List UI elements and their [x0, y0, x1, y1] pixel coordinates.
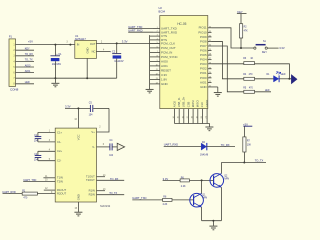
wire v2 PIO7 to LED2 row [212, 46, 244, 92]
svg-text:3.3V: 3.3V [161, 73, 167, 77]
left pin names [161, 27, 179, 86]
resistor R5 470 [244, 90, 255, 93]
svg-text:PIO0: PIO0 [200, 76, 207, 80]
wire bottom bus [175, 124, 210, 127]
wire UART_TXD [128, 28, 153, 30]
node junction GND rail [86, 77, 88, 79]
svg-text:2.2K: 2.2K [181, 186, 186, 188]
svg-text:AIO1: AIO1 [200, 80, 207, 84]
svg-text:PIO5: PIO5 [200, 53, 207, 57]
svg-text:PCM_SYNC: PCM_SYNC [161, 55, 179, 59]
wire corner to V+ pin 2 [97, 108, 110, 132]
svg-text:PIO6: PIO6 [200, 49, 207, 53]
svg-text:IN: IN [77, 43, 80, 47]
node junction C1 top [54, 44, 56, 46]
ground right of U2 [214, 92, 222, 94]
resistor R7 10K [243, 137, 246, 152]
wire Q2 collector up [220, 163, 222, 174]
svg-text:OUT: OUT [90, 42, 96, 46]
node junction [288, 78, 290, 80]
svg-text:LED: LED [265, 90, 270, 92]
pin names inside U3 [57, 130, 66, 195]
ground below rail [54, 78, 56, 83]
wire T2IN UART_TXD [23, 180, 55, 182]
regulator U1 AMS1117 [75, 40, 97, 58]
wire to D2 [164, 146, 202, 148]
svg-text:PIO3: PIO3 [200, 62, 207, 66]
svg-text:C2+: C2+ [57, 149, 62, 153]
svg-text:R1OUT: R1OUT [57, 188, 66, 192]
T1OUT stub pin 14 [97, 176, 106, 178]
svg-text:UART_TXD: UART_TXD [128, 25, 142, 29]
svg-text:C1+: C1+ [57, 130, 62, 134]
T1IN stub pin 11 [43, 177, 55, 179]
svg-text:PIO2: PIO2 [200, 67, 207, 71]
svg-text:HC-05: HC-05 [177, 22, 186, 26]
svg-text:KEY: KEY [25, 48, 30, 51]
svg-text:TO_TX: TO_TX [109, 192, 117, 195]
wire Q2 emitter down [220, 187, 222, 220]
node junction Q1 collector [201, 179, 203, 181]
ground below U2 bottom pins [205, 126, 213, 128]
R1OUT stub pin 12 [44, 189, 55, 191]
svg-text:USB_D+: USB_D+ [182, 96, 186, 107]
svg-text:GND: GND [161, 82, 169, 86]
svg-text:BC04: BC04 [159, 10, 166, 14]
svg-text:CSB: CSB [186, 101, 190, 107]
node junction KEY [240, 47, 242, 49]
connector P1 CON8 [9, 39, 16, 87]
svg-text:T2OUT: T2OUT [86, 178, 95, 182]
svg-text:MISO: MISO [196, 100, 200, 107]
wire Q1 emitter down [201, 207, 203, 221]
wire R2 to KEY row [240, 38, 242, 48]
wire pin4 [16, 60, 35, 62]
svg-text:MOSI: MOSI [191, 100, 195, 107]
wire TO_TX row [221, 162, 266, 164]
svg-text:C2-: C2- [57, 159, 61, 163]
right pin numbers [209, 26, 212, 87]
wire pin3 [16, 55, 35, 57]
wire pin5 [16, 66, 35, 68]
capacitor C1 10u/16V [54, 45, 56, 56]
svg-text:R1IN: R1IN [89, 189, 95, 193]
svg-text:AMS1117: AMS1117 [75, 37, 87, 41]
ground below U3 [74, 211, 82, 213]
port arrow hollow [117, 143, 124, 150]
wire U1 GND to rail [86, 58, 88, 78]
IC U3 MAX232 [55, 128, 96, 202]
svg-text:TO_RX: TO_RX [25, 53, 34, 56]
transistor Q1 NPN [190, 193, 204, 207]
svg-text:LED: LED [281, 74, 286, 76]
svg-text:TO_RX: TO_RX [221, 143, 230, 147]
LED D1 [274, 76, 279, 82]
wire Q1 collector vertical [201, 180, 203, 193]
pin4 NC stub [96, 51, 110, 53]
svg-text:+ C2: + C2 [110, 51, 116, 54]
svg-text:VCC: VCC [77, 134, 81, 140]
wire to LED label [255, 91, 272, 93]
svg-text:TO_RX: TO_RX [110, 178, 119, 181]
wire V- pin 6 [97, 146, 110, 148]
svg-text:RESET: RESET [161, 69, 171, 73]
svg-text:UART_TXD: UART_TXD [23, 179, 36, 182]
wire VCC top [65, 107, 90, 109]
left pin numbers [156, 27, 159, 84]
wire R3 to LED1 row [255, 64, 290, 79]
resistor R4 470 [244, 77, 255, 80]
resistor R1 470 [22, 192, 37, 195]
svg-text:PCM_OUT: PCM_OUT [161, 46, 176, 50]
bottom rotated pin names [172, 96, 209, 107]
wire pin8 [16, 83, 35, 85]
svg-text:47K: 47K [244, 31, 249, 33]
svg-text:TO_TX: TO_TX [25, 59, 33, 62]
svg-text:GND: GND [85, 47, 89, 53]
resistor R8 2.2K [163, 198, 172, 201]
svg-text:GND: GND [200, 85, 206, 89]
wire R2IN TO_TX [97, 194, 125, 196]
svg-text:PIO10: PIO10 [198, 30, 207, 34]
svg-text:C1-: C1- [57, 140, 61, 144]
svg-text:AIO0: AIO0 [161, 60, 168, 64]
right pin names [198, 26, 207, 89]
svg-text:1N4148: 1N4148 [200, 155, 209, 157]
svg-text:PIO8: PIO8 [200, 39, 207, 43]
bottom pin numbers [173, 115, 208, 118]
wire PIO11 KEY route [212, 28, 254, 48]
wire pin2 [16, 49, 35, 51]
wire OUT to 3.3V to U2 [96, 42, 159, 44]
wire to TO_RX [206, 146, 235, 148]
svg-text:10u/16V: 10u/16V [114, 60, 124, 63]
wire KEY label to R2 [240, 14, 242, 24]
svg-text:3.3V: 3.3V [122, 39, 128, 43]
svg-text:PIO7: PIO7 [200, 44, 207, 48]
svg-text:NPN: NPN [202, 198, 207, 200]
node junction C2 [116, 42, 118, 44]
wire R2OUT UART_RXD [3, 193, 23, 195]
wire left ground bus [149, 35, 151, 89]
ground below rail [212, 221, 214, 226]
node junction [243, 162, 245, 164]
svg-text:CLK: CLK [200, 102, 204, 107]
wire v1 PIO8 to LED1 row [212, 41, 244, 78]
svg-text:TO_TX: TO_TX [255, 159, 264, 163]
svg-text:V-: V- [92, 145, 95, 149]
svg-text:CON8: CON8 [10, 88, 19, 92]
capacitor C2 104 [37, 151, 39, 155]
svg-text:1.8V: 1.8V [161, 78, 167, 82]
svg-text:NPN: NPN [224, 179, 229, 181]
wire emitter rail [202, 220, 222, 222]
ground below bus [146, 88, 154, 90]
svg-text:KEY: KEY [262, 51, 267, 54]
svg-text:AIO2: AIO2 [172, 101, 176, 108]
node junction C1 rail [54, 77, 56, 79]
resistor R6 2.2K [180, 179, 189, 182]
svg-text:PCM_CLK: PCM_CLK [161, 42, 175, 46]
svg-text:PIO11: PIO11 [199, 26, 207, 30]
wire GND pin 15 [77, 202, 79, 212]
wire pin6 [16, 72, 35, 74]
svg-text:R2OUT: R2OUT [57, 192, 66, 196]
wire R8 to Q1 base [172, 199, 194, 201]
svg-text:+ C1: + C1 [56, 53, 62, 56]
svg-text:MAX232: MAX232 [100, 204, 111, 208]
svg-text:LED: LED [25, 81, 30, 84]
svg-text:+5V: +5V [28, 40, 33, 44]
svg-text:PIO9: PIO9 [200, 35, 207, 39]
left cap pin wires [38, 132, 55, 160]
wire pin1 +5V row [16, 44, 75, 46]
svg-text:UART_RXD: UART_RXD [128, 29, 142, 33]
wire T2OUT TO_RX [97, 179, 125, 181]
wire to 3.3V [267, 47, 278, 49]
right pin stubs [208, 28, 218, 87]
svg-text:10u/16V: 10u/16V [52, 63, 62, 66]
node junction at IN [69, 44, 71, 46]
resistor R3 1K [244, 62, 255, 65]
svg-text:AIO1: AIO1 [161, 64, 168, 68]
svg-text:GND: GND [77, 194, 81, 200]
wire LED to port [279, 78, 291, 80]
IC U2 BC04 HC-05 [160, 16, 208, 109]
svg-text:T2IN: T2IN [57, 179, 63, 183]
wire UART_TXD to R8 [132, 199, 162, 201]
svg-text:PCM_IN: PCM_IN [161, 51, 172, 55]
svg-text:T1IN: T1IN [57, 176, 63, 180]
wire pin7 ground rail [16, 77, 117, 79]
svg-text:R2IN: R2IN [89, 193, 95, 197]
wire [255, 78, 274, 80]
svg-text:GND2: GND2 [205, 99, 209, 107]
wire R7 down [243, 152, 245, 163]
svg-text:10K: 10K [247, 145, 252, 147]
wire right GND pin down [217, 87, 219, 92]
svg-text:T1OUT: T1OUT [86, 175, 95, 179]
transistor Q2 NPN [210, 174, 224, 188]
svg-text:UART_RXD: UART_RXD [164, 143, 178, 147]
svg-text:PIO1: PIO1 [200, 71, 207, 75]
capacitor C5 104 [89, 105, 91, 112]
switch S1 KEY [254, 47, 256, 49]
capacitor C1 104 [37, 132, 39, 136]
wire R1IN stub pin 13 [97, 190, 106, 192]
wire R6 to Q2 base [189, 179, 213, 181]
svg-text:UART_RXD: UART_RXD [2, 191, 16, 194]
svg-text:AIO0: AIO0 [25, 64, 31, 67]
node junction ground [212, 220, 214, 222]
svg-text:1K: 1K [250, 58, 253, 60]
svg-text:V+: V+ [91, 130, 95, 134]
svg-text:+5V: +5V [243, 122, 248, 126]
diode D2 1N4148 [201, 143, 206, 150]
svg-text:3.3V: 3.3V [65, 105, 71, 109]
svg-text:2.2K: 2.2K [163, 204, 168, 206]
svg-text:3.3V: 3.3V [279, 46, 285, 50]
wire 3.3V to R6 [163, 179, 181, 181]
wire UART_RXD [128, 31, 153, 33]
svg-text:PIO4: PIO4 [200, 58, 207, 62]
wire PIO2 row to R3 [212, 63, 244, 65]
bottom pin stubs [175, 109, 208, 124]
capacitor C2 10u/16V [116, 43, 118, 53]
svg-text:USB_D-: USB_D- [177, 97, 181, 107]
svg-text:AIO1: AIO1 [25, 70, 31, 73]
svg-text:NC: NC [92, 50, 96, 54]
port arrow [291, 75, 297, 84]
left pin stubs [150, 29, 160, 84]
capacitor C4 104 [109, 143, 111, 150]
resistor R2 47K [240, 24, 243, 38]
svg-text:U2: U2 [159, 6, 163, 10]
